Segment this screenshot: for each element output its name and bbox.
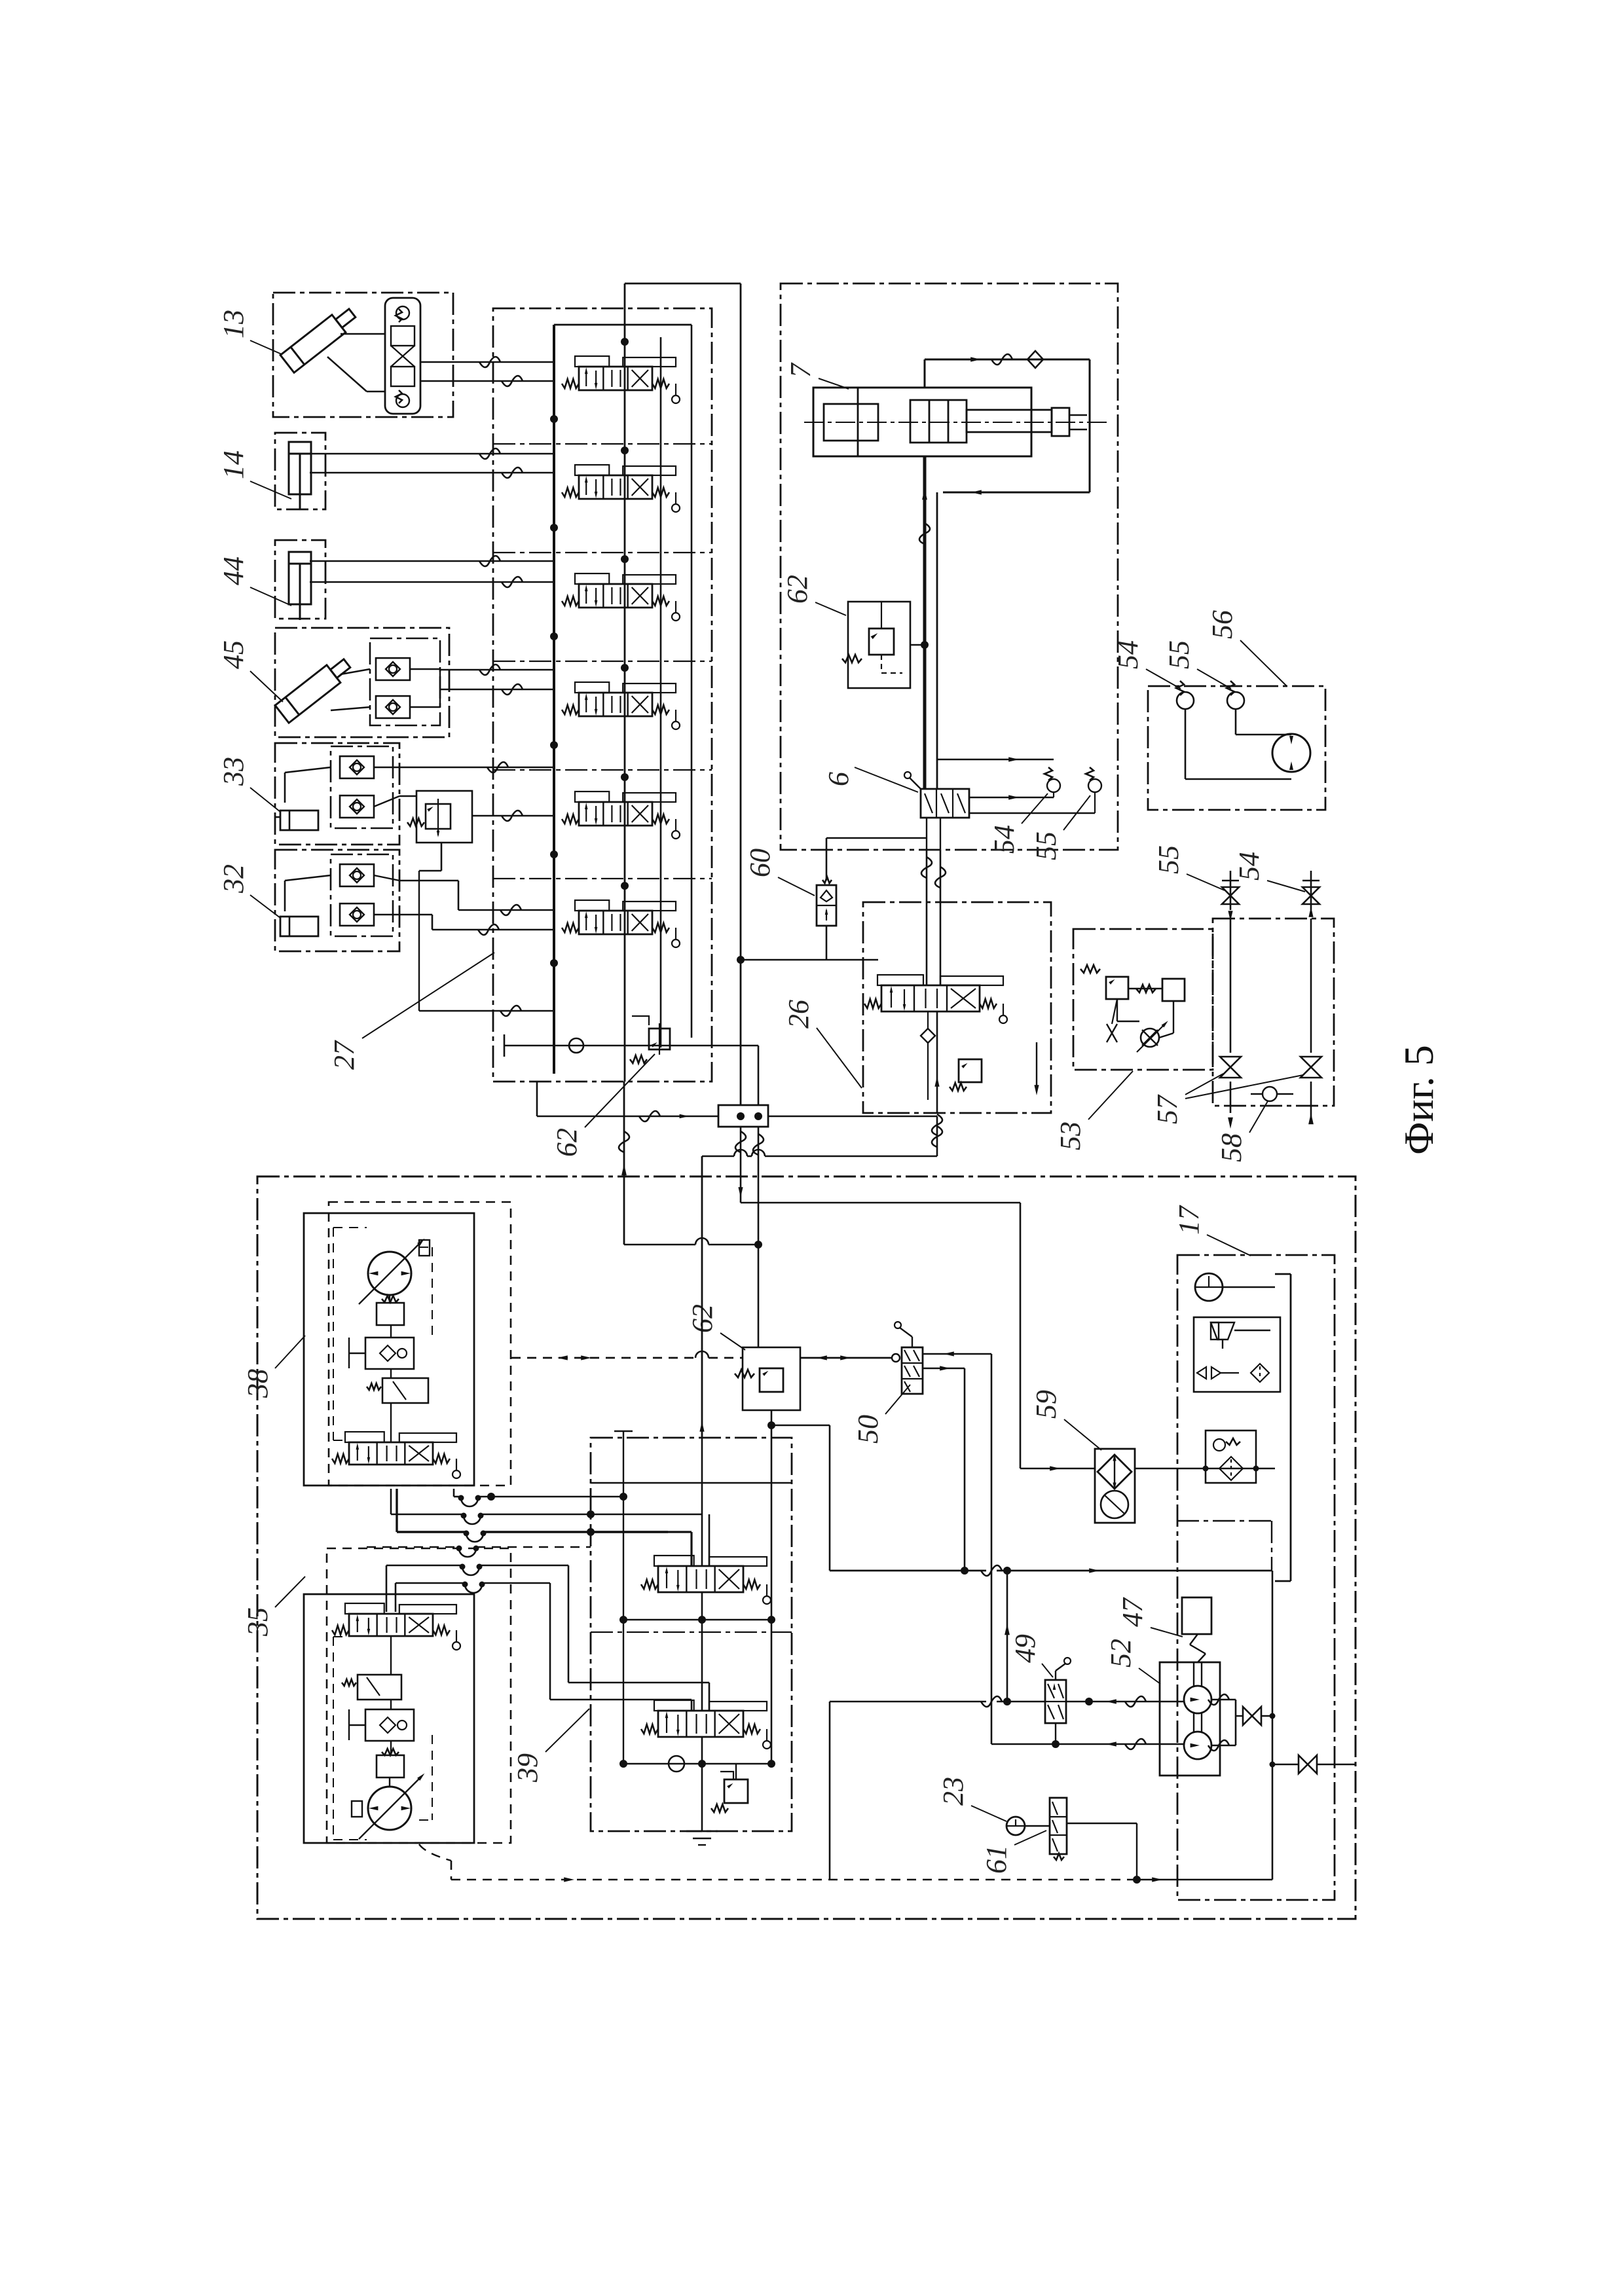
bank pilot relief valve 62 (bottom of bank) (504, 1016, 758, 1063)
label 58 (1215, 1101, 1268, 1162)
directional control valve section 3 of bank 27 (562, 574, 680, 621)
label 55 (right) (1153, 845, 1225, 890)
feed lines of cylinder 7 (919, 351, 1090, 789)
main power unit boundary box (257, 1176, 1356, 1919)
svg-text:47: 47 (1116, 1597, 1149, 1627)
double pump 52 (1160, 1662, 1220, 1776)
label 49 (1009, 1634, 1053, 1677)
svg-text:61: 61 (980, 1845, 1012, 1874)
label 14 (217, 450, 291, 499)
label 52 (1105, 1639, 1160, 1684)
hydraulic tank unit 17 (1135, 1255, 1335, 1900)
label 57 (1151, 1074, 1303, 1124)
engine 47 (1182, 1597, 1211, 1662)
label 27 (328, 953, 494, 1070)
svg-text:54: 54 (988, 825, 1020, 854)
svg-text:13: 13 (217, 310, 249, 338)
hand valve 6 (904, 772, 969, 850)
svg-text:62: 62 (551, 1128, 583, 1157)
svg-text:59: 59 (1030, 1390, 1062, 1419)
pump regulator group 38 (304, 1202, 511, 1485)
label 44 (217, 556, 291, 606)
subsystem boundary 7 (box) (781, 283, 1118, 850)
directional control valve section 5 of bank 27 (562, 792, 680, 839)
label 62 (bank relief) (551, 1054, 655, 1157)
label 62 (power unit) (686, 1304, 745, 1350)
valve 49 (1045, 1658, 1071, 1748)
label 54 (unit 56) (1112, 640, 1181, 689)
svg-text:55: 55 (1030, 831, 1062, 860)
svg-text:55: 55 (1153, 845, 1185, 874)
svg-text:49: 49 (1009, 1634, 1041, 1663)
svg-text:57: 57 (1151, 1094, 1183, 1124)
valve 60 (737, 838, 927, 964)
svg-text:26: 26 (783, 1000, 815, 1029)
svg-text:23: 23 (937, 1777, 969, 1806)
label 55 (unit 56) (1163, 640, 1231, 689)
svg-text:45: 45 (217, 640, 249, 669)
svg-text:56: 56 (1206, 610, 1238, 639)
svg-text:35: 35 (242, 1607, 274, 1637)
travel valve block 39 (591, 1431, 792, 1845)
label 50 (852, 1385, 910, 1444)
pump regulator group 35 (304, 1548, 511, 1843)
svg-text:54: 54 (1233, 852, 1265, 881)
label 39 (511, 1709, 589, 1783)
directional control valve section 2 of bank 27 (562, 465, 680, 512)
svg-text:50: 50 (852, 1415, 884, 1444)
pilot check valves 54 55 (box 7) (937, 757, 1101, 813)
cylinder 45 with check block (actuator box) (275, 628, 453, 737)
shut-off unit with valves 57 and check 58 (1213, 919, 1334, 1129)
label 26 (783, 1000, 862, 1088)
directional control valve section 4 of bank 27 (562, 682, 680, 729)
label 55 (box 7) (1030, 795, 1090, 860)
svg-text:7: 7 (784, 362, 817, 378)
label 33 (217, 757, 280, 812)
test valves 54 55 (right) (1222, 871, 1319, 921)
svg-text:54: 54 (1112, 640, 1144, 669)
label 56 (1206, 610, 1287, 686)
label 61 (980, 1831, 1046, 1874)
directional control valve section 6 of bank 27 (562, 900, 680, 947)
cylinder 44 (actuator box) (275, 540, 325, 620)
label 32 (217, 864, 280, 918)
drain line (dashed) (419, 1844, 1272, 1882)
cylinder 32 with check block (actuator box) (275, 850, 399, 951)
label 60 (744, 848, 815, 896)
svg-text:53: 53 (1054, 1121, 1086, 1150)
figure caption (1395, 1045, 1442, 1155)
label 13 (217, 310, 282, 354)
label 62 (box 7) (781, 575, 846, 615)
svg-text:60: 60 (744, 848, 776, 877)
label 54 (right) (1233, 852, 1305, 892)
svg-text:38: 38 (242, 1369, 274, 1398)
svg-text:33: 33 (217, 757, 249, 786)
svg-text:39: 39 (511, 1753, 544, 1783)
label 38 (242, 1336, 305, 1398)
hose lines between pump groups and valve block 39 (367, 1489, 668, 1700)
bank rail junction dots (550, 338, 629, 967)
return and drain lines (center) (767, 1203, 1272, 1880)
diverter valve 50 (895, 1322, 991, 1394)
svg-text:Фиг. 5: Фиг. 5 (1395, 1045, 1442, 1155)
label 53 (1054, 1071, 1133, 1150)
hydraulic motor unit 13 (actuator box) (273, 293, 453, 417)
main pressure lines (power unit) (511, 1082, 1020, 1438)
label 17 (1173, 1205, 1251, 1256)
pilot relief valve 62 (in box 7) (842, 601, 929, 688)
svg-text:62: 62 (781, 575, 813, 604)
svg-text:6: 6 (822, 772, 855, 786)
relief valve unit (port of 33) (407, 791, 472, 843)
svg-text:17: 17 (1173, 1205, 1205, 1235)
directional control valve section 1 of bank 27 (562, 356, 680, 403)
junction manifold block (537, 1046, 937, 1127)
hydraulic cylinder 7 (804, 388, 1107, 456)
wires from actuators to valve bank (325, 357, 554, 1016)
brake control valve unit 26 (863, 850, 1051, 1135)
pressure gauge 23 and valve 61 (1006, 1798, 1141, 1884)
svg-text:55: 55 (1163, 640, 1195, 669)
svg-text:52: 52 (1105, 1639, 1137, 1667)
label 35 (242, 1576, 305, 1637)
label 59 (1030, 1390, 1101, 1450)
svg-text:32: 32 (217, 864, 249, 894)
brake valve unit 53 (1073, 929, 1213, 1070)
brake unit 56 with check valves and motor (1148, 681, 1325, 810)
relief valve 62 (power unit) (735, 1347, 800, 1410)
label 7 (784, 362, 849, 389)
svg-text:27: 27 (328, 1040, 360, 1070)
cylinder 33 with check block (actuator box) (275, 743, 399, 845)
svg-text:14: 14 (217, 450, 249, 479)
label 6 (822, 767, 918, 792)
label 47 (1116, 1597, 1183, 1637)
label 54 (box 7) (988, 793, 1048, 854)
pump 52 connection lines (991, 1571, 1356, 1880)
cylinder 14 (actuator box) (275, 433, 325, 510)
svg-text:44: 44 (217, 556, 249, 585)
label 23 (937, 1777, 1006, 1821)
cooler with filter 59 (1095, 1449, 1135, 1523)
svg-text:58: 58 (1215, 1133, 1247, 1162)
label 45 (217, 640, 283, 702)
valve bank 27 frame and rails (493, 283, 741, 1105)
